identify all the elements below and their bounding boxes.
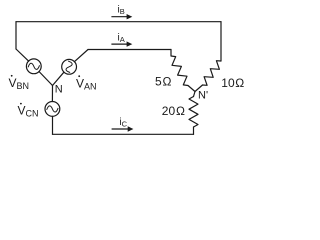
wire: 5-ohm lead to node N'	[188, 86, 195, 92]
dot over VBN	[11, 75, 13, 77]
svg-text:iC: iC	[119, 117, 127, 129]
resistor R 20-ohm (zigzag)	[189, 97, 198, 128]
wire: short vertical into 5-ohm	[170, 50, 172, 56]
wire: diagonal to source VBN	[16, 49, 29, 61]
sine symbol inside VBN	[28, 63, 39, 69]
sine symbol inside VAN (rotated)	[66, 61, 72, 72]
current arrow iA	[111, 41, 132, 46]
sine symbol inside VCN	[47, 106, 58, 112]
resistor R 10-ohm (zigzag)	[203, 61, 222, 86]
wire: right vertical down to 10-ohm	[220, 22, 222, 61]
source VAN (AC source circle)	[62, 59, 77, 74]
wire: bottom horizontal (phase C)	[53, 133, 194, 135]
wire: node N to source VAN	[53, 72, 64, 85]
wire: horizontal (phase A)	[88, 49, 171, 51]
wire: 10-ohm lead to node N'	[195, 85, 203, 92]
wire: 20-ohm down to bottom wire	[193, 127, 195, 134]
svg-text:VAN: VAN	[76, 77, 97, 92]
svg-text:5Ω: 5Ω	[155, 75, 171, 89]
wire: top horizontal (phase B)	[16, 21, 221, 23]
svg-text:10Ω: 10Ω	[221, 76, 244, 90]
wire: VCN up to node N	[51, 86, 53, 102]
svg-text:iB: iB	[118, 5, 125, 17]
wire: up from bottom wire to VCN	[52, 116, 54, 134]
svg-text:iA: iA	[118, 33, 125, 45]
wire: left vertical from top-left corner	[15, 22, 17, 49]
source VCN (AC source circle)	[45, 102, 60, 117]
wire: node N' down to 20-ohm	[194, 92, 196, 97]
dot over VCN	[20, 103, 22, 105]
wire: VAN up to corner	[74, 50, 88, 62]
current arrow iB	[111, 14, 132, 19]
svg-text:N: N	[55, 84, 63, 96]
current arrow iC	[112, 126, 134, 131]
svg-text:VCN: VCN	[18, 104, 39, 119]
svg-text:VBN: VBN	[9, 76, 30, 91]
source VBN (AC source circle)	[26, 59, 41, 74]
wire: VBN to node N	[39, 72, 53, 86]
svg-text:N': N'	[198, 90, 208, 102]
resistor R 5-ohm (zigzag)	[171, 56, 188, 86]
dot over VAN	[78, 75, 80, 77]
svg-text:20Ω: 20Ω	[162, 104, 185, 118]
